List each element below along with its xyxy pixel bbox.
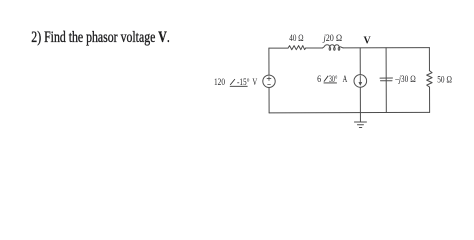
wire left branch lower (source to bottom wire) [268, 87, 270, 112]
ground bars [354, 122, 366, 128]
wire current-source branch lower [359, 87, 361, 112]
current source arrow (downward) [359, 76, 361, 83]
resistor R 40ohm zigzag [288, 46, 306, 50]
angle symbol for -15 deg [230, 79, 248, 86]
svg-text:120: 120 [214, 77, 225, 88]
svg-text:j20 Ω: j20 Ω [322, 33, 342, 44]
wire capacitor branch [385, 48, 387, 113]
wire inductor to node V and to right corner [343, 47, 429, 49]
voltage source minus sign [268, 83, 271, 85]
bottom wire [269, 111, 429, 114]
svg-text:V: V [364, 35, 372, 46]
inductor L j20ohm coils [323, 45, 344, 48]
wire current-source branch upper [359, 48, 361, 75]
ground stub [359, 113, 361, 122]
wire between resistor and inductor [306, 47, 323, 49]
angle symbol for 30 deg [324, 76, 337, 83]
svg-text:30°: 30° [329, 74, 338, 85]
wire top-left segment (source to resistor) [269, 47, 288, 49]
svg-text:-15°: -15° [237, 77, 250, 88]
resistor R 50ohm zigzag [427, 71, 432, 87]
voltage source VS circle [263, 75, 275, 87]
svg-text:40 Ω: 40 Ω [289, 33, 303, 44]
problem statement text [31, 29, 170, 46]
svg-text:–j30 Ω: –j30 Ω [394, 74, 415, 85]
wire left branch upper (top corner down to voltage source) [268, 48, 270, 75]
wire 50ohm branch upper [428, 48, 430, 71]
svg-text:A: A [343, 74, 348, 85]
svg-text:6: 6 [317, 74, 321, 85]
svg-text:50 Ω: 50 Ω [437, 75, 452, 86]
voltage source plus sign [267, 77, 271, 81]
svg-text:V: V [252, 77, 257, 88]
wire 50ohm branch lower [429, 87, 431, 112]
svg-text:2) Find the phasor voltage V.: 2) Find the phasor voltage V. [31, 29, 170, 46]
capacitor C plates [380, 78, 393, 81]
current source arrowhead [359, 82, 363, 86]
inductor loop marks [329, 48, 331, 51]
current source IS circle [354, 75, 367, 88]
